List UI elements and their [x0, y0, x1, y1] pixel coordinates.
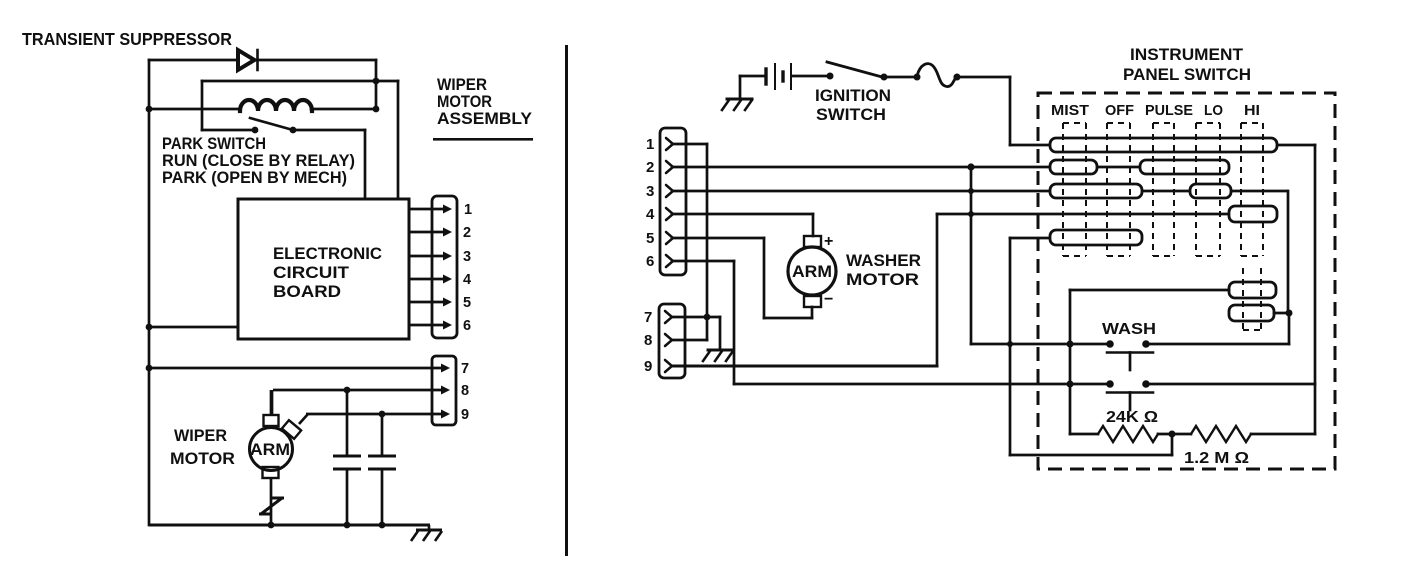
svg-text:LO: LO: [1204, 102, 1223, 119]
svg-text:BOARD: BOARD: [273, 283, 341, 301]
svg-text:6: 6: [463, 318, 471, 334]
svg-text:MOTOR: MOTOR: [846, 271, 919, 289]
svg-text:TRANSIENT SUPPRESSOR: TRANSIENT SUPPRESSOR: [22, 29, 232, 49]
svg-text:5: 5: [463, 295, 471, 311]
svg-text:CIRCUIT: CIRCUIT: [273, 264, 349, 282]
svg-text:ELECTRONIC: ELECTRONIC: [273, 245, 382, 263]
svg-text:8: 8: [461, 383, 469, 399]
svg-text:5: 5: [646, 230, 654, 247]
svg-text:3: 3: [463, 249, 471, 265]
svg-text:7: 7: [461, 361, 469, 377]
svg-text:WASHER: WASHER: [846, 252, 921, 270]
svg-text:MOTOR: MOTOR: [170, 450, 235, 468]
svg-text:+: +: [824, 233, 833, 250]
svg-text:MIST: MIST: [1051, 102, 1089, 119]
svg-text:OFF: OFF: [1105, 102, 1134, 119]
svg-text:PULSE: PULSE: [1145, 102, 1193, 119]
svg-text:3: 3: [646, 183, 654, 200]
svg-text:WIPER: WIPER: [174, 427, 227, 445]
svg-text:4: 4: [646, 206, 655, 223]
svg-text:PARK (OPEN BY MECH): PARK (OPEN BY MECH): [162, 169, 347, 187]
svg-text:8: 8: [644, 332, 652, 349]
svg-text:1: 1: [464, 202, 472, 218]
svg-text:24K Ω: 24K Ω: [1106, 409, 1158, 426]
svg-text:4: 4: [463, 272, 471, 288]
svg-text:1.2 M Ω: 1.2 M Ω: [1184, 450, 1249, 467]
svg-text:WASH: WASH: [1102, 321, 1156, 338]
svg-text:9: 9: [644, 358, 652, 375]
svg-text:MOTOR: MOTOR: [437, 93, 492, 111]
svg-text:ASSEMBLY: ASSEMBLY: [437, 110, 532, 128]
svg-text:−: −: [824, 291, 833, 308]
svg-text:2: 2: [646, 159, 654, 176]
svg-text:PARK SWITCH: PARK SWITCH: [162, 135, 266, 153]
svg-text:9: 9: [461, 407, 469, 423]
svg-text:HI: HI: [1244, 102, 1260, 119]
svg-text:ARM: ARM: [250, 441, 290, 459]
svg-text:WIPER: WIPER: [437, 76, 487, 94]
svg-text:PANEL SWITCH: PANEL SWITCH: [1123, 65, 1251, 84]
svg-text:ARM: ARM: [792, 263, 832, 281]
svg-text:IGNITION: IGNITION: [815, 87, 891, 105]
svg-text:6: 6: [646, 253, 654, 270]
svg-text:SWITCH: SWITCH: [816, 106, 886, 124]
svg-text:1: 1: [646, 136, 654, 153]
svg-text:7: 7: [644, 309, 652, 326]
svg-text:INSTRUMENT: INSTRUMENT: [1130, 45, 1244, 64]
svg-text:2: 2: [463, 225, 471, 241]
svg-text:RUN (CLOSE BY RELAY): RUN (CLOSE BY RELAY): [162, 152, 355, 170]
